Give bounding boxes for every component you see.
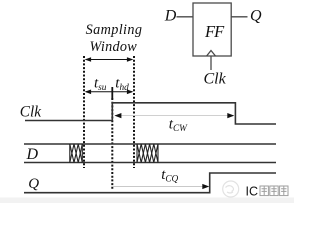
svg-text:Sampling: Sampling	[86, 22, 143, 38]
svg-text:D: D	[26, 146, 39, 163]
svg-text:D: D	[164, 8, 177, 25]
svg-text:FF: FF	[204, 22, 225, 41]
svg-text:Window: Window	[90, 39, 138, 55]
svg-text:Q: Q	[28, 176, 39, 192]
svg-text:IC: IC	[246, 185, 259, 199]
svg-text:Q: Q	[250, 7, 262, 24]
svg-text:Clk: Clk	[20, 104, 42, 121]
svg-text:Clk: Clk	[204, 71, 227, 88]
